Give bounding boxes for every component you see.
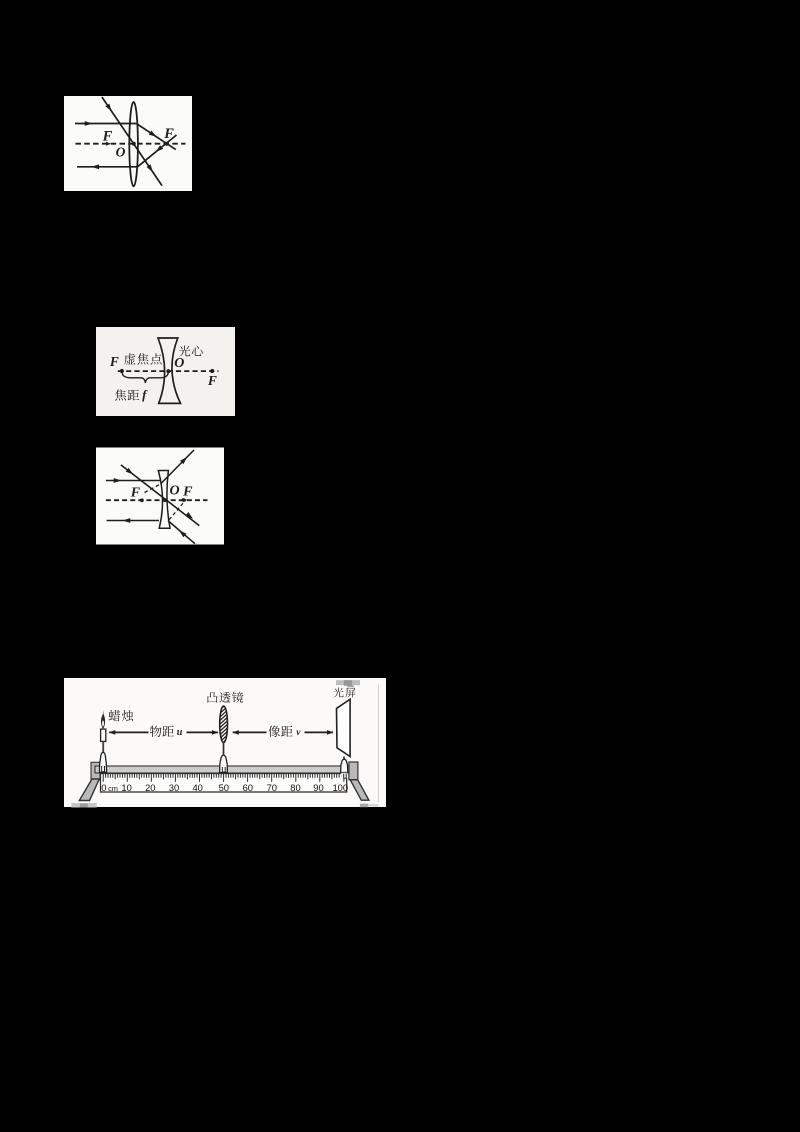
fig4 ruler numbers 0-100 and cm <box>101 782 348 793</box>
fig4 image distance double arrow (left half) <box>232 730 266 735</box>
fig4 left stand upright (grey) <box>91 762 100 780</box>
fig2 principal axis (dashed) <box>118 370 219 372</box>
svg-text:F: F <box>163 126 174 142</box>
fig4 candle holder <box>99 752 106 772</box>
fig1 label F (left focus) <box>102 128 113 144</box>
fig3 right focus dot F <box>182 498 186 502</box>
fig2 label 光心 (optical center) <box>179 345 203 356</box>
fig4 label 光屏 (light screen) <box>334 688 356 698</box>
fig4 light screen board <box>337 699 351 756</box>
fig3 label F (left) <box>130 486 141 501</box>
fig3 diverged ray 1 (up-right) <box>161 450 195 484</box>
svg-text:F: F <box>130 486 141 501</box>
fig2 label O <box>174 356 184 371</box>
svg-text:90: 90 <box>313 782 323 793</box>
fig4 ruler tick marks <box>103 774 344 782</box>
figure 3 panel (concave lens ray diagram) white background <box>96 448 224 545</box>
svg-text:O: O <box>170 483 180 498</box>
fig2 right focus dot F <box>210 369 214 373</box>
svg-text:F: F <box>182 485 193 500</box>
fig3 virtual back-extension to left focus (dashed) <box>145 484 161 493</box>
fig4 screen holder <box>341 757 348 779</box>
fig1 exit ray 3 parallel (horizontal, arrow left) <box>77 164 138 169</box>
svg-text:F: F <box>109 354 119 369</box>
fig4 scan artifact grey blob bottom left <box>71 803 97 808</box>
fig4 object distance double arrow (left half) <box>109 730 149 735</box>
fig4 label 蜡烛 (candle) <box>109 710 134 721</box>
fig3 concave lens outline <box>158 471 170 529</box>
fig4 image distance double arrow (right half) <box>305 730 334 735</box>
fig1 incident ray 1: parallel ray (horizontal, arrow right) <box>75 121 136 126</box>
figure 4 panel (optical bench) white background <box>64 678 386 807</box>
fig1 ray 2 straight through optical center O <box>102 97 162 186</box>
fig2 label F (right) <box>207 373 217 388</box>
fig3 exit ray 3 parallel (arrow left) <box>107 518 159 523</box>
fig4 lens holder <box>220 755 228 773</box>
fig2 label f (italic) <box>142 387 148 402</box>
svg-text:80: 80 <box>290 782 300 793</box>
svg-text:100: 100 <box>332 782 348 793</box>
svg-text:40: 40 <box>192 782 202 793</box>
fig4 label v (italic) <box>296 728 301 738</box>
fig4 label 物距 (object distance) <box>150 726 174 737</box>
fig4 left stand leg (grey, slanted) <box>79 779 99 801</box>
svg-text:0: 0 <box>101 782 106 793</box>
fig3 label O <box>170 483 180 498</box>
svg-text:10: 10 <box>121 782 131 793</box>
fig4 scan artifact grey blob bottom right <box>360 804 379 808</box>
svg-text:30: 30 <box>169 782 179 793</box>
fig3 incident ray 3 from lower right aimed at far focus <box>168 521 195 544</box>
fig3 principal axis (dashed) <box>106 499 208 501</box>
fig4 label u (italic) <box>177 727 183 738</box>
fig1 refracted ray 1 through focus F <box>136 124 176 150</box>
svg-text:20: 20 <box>145 782 155 793</box>
fig1 right focal point dot F <box>165 142 169 146</box>
fig4 label 凸透镜 (convex lens) <box>208 692 244 703</box>
fig1 incident ray 3 from upper right through focus F <box>138 135 177 167</box>
fig4 candle flame <box>101 710 105 730</box>
fig1 optical center dot O <box>132 142 136 146</box>
fig3 left focus dot F <box>140 498 144 502</box>
svg-text:F: F <box>102 128 113 144</box>
fig3 virtual extension to right focus (dashed) <box>169 499 186 519</box>
svg-text:60: 60 <box>243 782 253 793</box>
svg-text:cm: cm <box>108 784 118 793</box>
svg-text:50: 50 <box>219 782 229 793</box>
fig4 label 像距 (image distance) <box>268 726 292 737</box>
fig2 concave lens outline <box>158 338 181 403</box>
fig4 candle stem <box>102 741 104 752</box>
svg-text:70: 70 <box>267 782 277 793</box>
fig4 bench rail bar <box>95 766 349 773</box>
fig4 object distance double arrow (right half) <box>187 730 219 735</box>
fig4 convex lens (hatched ellipse) <box>218 702 229 748</box>
fig4 faint scan line near right edge <box>377 685 379 803</box>
fig1 label O (optical center) <box>116 144 126 159</box>
fig1 label F (right focus) <box>163 126 174 142</box>
fig3 optical center dot O <box>163 498 167 502</box>
svg-text:O: O <box>116 144 126 159</box>
fig2 optical center dot O <box>166 369 170 373</box>
fig4 right stand leg (grey, slanted) <box>350 780 369 800</box>
fig1 principal axis (dashed) <box>76 143 186 145</box>
fig2 left virtual focus dot F <box>120 369 124 373</box>
fig3 incident ray 1 parallel (arrow right) <box>106 478 161 483</box>
fig2 brace for focal length f <box>122 372 168 383</box>
fig4 candle body <box>101 729 106 741</box>
fig4 scan artifact grey blob top right <box>336 680 360 687</box>
fig3 ray 2 straight through optical center O <box>121 465 199 526</box>
fig1 small marker arrow on axis at left focus F <box>106 142 111 146</box>
fig2 label 焦距 (focal length) <box>115 389 139 400</box>
svg-text:u: u <box>177 727 183 738</box>
fig4 lens stem <box>223 742 225 755</box>
fig4 ruler body <box>101 774 347 793</box>
fig2 label F (left) <box>109 354 119 369</box>
fig3 label F (right) <box>182 485 193 500</box>
fig4 right stand upright (grey) <box>349 762 358 780</box>
fig1 convex lens (ellipse) <box>129 102 138 186</box>
svg-text:O: O <box>174 356 184 371</box>
figure 1 panel (convex lens ray diagram) white background <box>64 96 192 191</box>
fig2 label 虚焦点 (virtual focal point) <box>124 353 162 364</box>
svg-text:F: F <box>207 373 217 388</box>
figure 2 panel (concave lens focal definitions) white background <box>96 327 235 416</box>
